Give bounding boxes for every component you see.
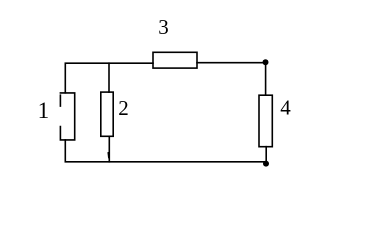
wire: left vertical from R1 top up and top rail to R3 left lead xyxy=(65,63,153,93)
node: top junction dot xyxy=(263,59,269,65)
wire: R3 right lead to top node xyxy=(197,62,266,64)
wire: R2 bottom down to bottom rail xyxy=(108,136,110,162)
wire: R1 bottom down to bottom-left corner and bottom rail to bottom node xyxy=(65,140,266,162)
svg-text:1: 1 xyxy=(38,98,50,123)
wire: vertical drop from top rail to R2 top xyxy=(108,63,110,92)
resistor R1 (box with broken left edge) xyxy=(60,93,74,140)
svg-text:3: 3 xyxy=(158,15,169,39)
resistor R3 (box) xyxy=(153,52,197,68)
current direction arrow on R2 bottom wire xyxy=(107,151,110,158)
wire: top node down to R4 top xyxy=(265,62,267,95)
resistor R4 (box) xyxy=(259,95,272,147)
node: bottom junction dot xyxy=(263,161,269,167)
resistor R2 (box) xyxy=(101,92,113,136)
svg-text:2: 2 xyxy=(118,96,129,120)
wire: R4 bottom down to bottom node xyxy=(265,147,267,164)
svg-text:4: 4 xyxy=(280,95,291,119)
